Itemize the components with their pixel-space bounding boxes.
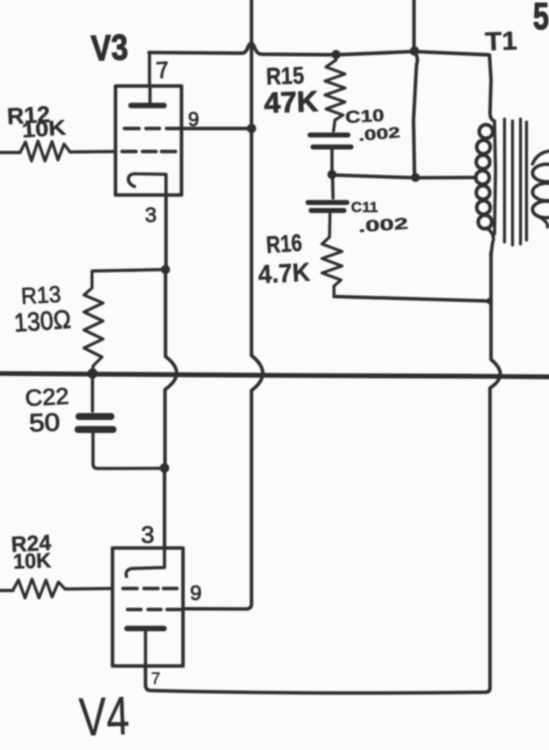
wire: C10 bottom lead <box>330 150 333 173</box>
transformer T1 core line 4 <box>525 122 528 240</box>
transformer T1 primary loop 4 <box>476 171 490 185</box>
transformer T1 secondary loop 3 <box>533 201 549 218</box>
svg-text:5: 5 <box>533 0 549 38</box>
transformer T1 secondary lead-in <box>533 151 549 164</box>
wire: C11 top lead <box>331 175 335 198</box>
tube V4 cathode <box>126 547 164 577</box>
svg-text:.002: .002 <box>358 124 401 145</box>
transformer T1 primary loop 1 <box>479 125 493 139</box>
wire: B+ vertical to center tap line <box>414 52 418 175</box>
wire: B+ vertical from top <box>412 0 416 49</box>
wire: bus to C22 <box>91 374 94 412</box>
wire: C22 bottom to cathode chain <box>93 433 163 469</box>
svg-text:50: 50 <box>29 408 61 437</box>
svg-text:47K: 47K <box>264 86 319 120</box>
capacitor C11 plate 2 <box>311 208 344 213</box>
transformer T1 core line 3 <box>519 119 522 244</box>
wire: V3 cathode to pin 3 <box>164 175 167 196</box>
wire: input stub to R24 <box>0 589 13 592</box>
transformer T1 primary loop 3 <box>476 155 490 169</box>
wire: R16 bottom to T1 primary bottom <box>334 297 488 302</box>
transformer T1 primary loop 7 <box>478 215 492 229</box>
svg-text:9: 9 <box>190 582 202 605</box>
junction dot C10/C11 <box>327 170 336 179</box>
transformer T1 primary loop 6 <box>477 201 491 215</box>
wire: V3 pin 9 to node-A vertical <box>184 127 250 130</box>
svg-text:7: 7 <box>151 669 160 688</box>
svg-text:C22: C22 <box>24 383 69 411</box>
resistor R16 <box>322 213 342 296</box>
junction dot R15 top <box>331 50 340 59</box>
resistor R12 <box>20 141 70 161</box>
wire: V3 cathode chain vertical <box>164 195 168 268</box>
tube V4 grid pin 9 (dashed) <box>128 608 181 611</box>
junction dot B+ / center tap <box>411 173 420 182</box>
wire: node A vertical (top edge to V4 pin 9, hops over cathode bus) <box>186 0 263 609</box>
capacitor C22 plate 1 <box>79 413 111 420</box>
transformer T1 secondary lead-out <box>536 215 548 228</box>
svg-text:10K: 10K <box>13 549 52 573</box>
wire: input stub to R12 <box>0 151 20 154</box>
tube V3 plate <box>148 86 151 103</box>
wire: plate bus from V3 pin 7 to T1 primary top (hops over node-A line) <box>149 43 488 55</box>
wire: R24 to V4 grid <box>65 587 111 591</box>
transformer T1 core line 2 <box>511 121 514 245</box>
svg-text:V4: V4 <box>78 686 130 748</box>
wire: R12 to V3 grid <box>70 150 114 154</box>
svg-text:4.7K: 4.7K <box>257 257 311 290</box>
transformer T1 primary loop 2 <box>477 140 491 154</box>
svg-text:3: 3 <box>145 204 157 227</box>
svg-text:R16: R16 <box>265 230 303 259</box>
resistor R15 <box>325 55 345 132</box>
svg-text:3: 3 <box>141 522 154 549</box>
resistor R13 <box>84 271 103 371</box>
wire: V3 pin 7 lead <box>148 53 151 86</box>
svg-text:10K: 10K <box>21 116 66 142</box>
svg-text:C11: C11 <box>351 199 378 216</box>
wire: cathode bus (full width) <box>0 374 549 377</box>
svg-text:130Ω: 130Ω <box>13 304 72 338</box>
svg-text:7: 7 <box>155 56 170 83</box>
capacitor C11 plate 1 <box>308 200 347 205</box>
junction dot R16 / T1 bottom <box>486 298 492 304</box>
junction dot B+ / plate bus <box>410 46 419 55</box>
tube V3 cathode <box>128 174 165 187</box>
wire: screen line C10/C11 junction to T1 center tap <box>332 175 476 178</box>
junction dot C22 bottom <box>160 463 170 473</box>
svg-text:.002: .002 <box>358 216 409 236</box>
resistor R24 <box>13 579 65 598</box>
capacitor C10 plate 1 <box>310 133 348 138</box>
junction dot V3 pin9 / node A <box>247 124 256 133</box>
wire: V4 plate to bottom run <box>146 666 487 693</box>
wire: T1 primary top lead down <box>490 55 495 121</box>
tube V4 grid (dashed, to R24) <box>123 587 177 590</box>
wire: cathode chain to V4 pin 3 <box>163 468 167 546</box>
transformer T1 secondary loop 1 <box>533 164 549 182</box>
capacitor C10 plate 2 <box>313 145 351 150</box>
transformer T1 primary winding spine <box>495 121 496 234</box>
svg-text:T1: T1 <box>485 25 518 56</box>
tube V3 control grid (dashed, to R12) <box>122 150 176 153</box>
transformer T1 core line 1 <box>503 119 506 242</box>
svg-text:V3: V3 <box>90 26 128 68</box>
wire: cathode chain hop over bus <box>165 270 177 467</box>
wire: R13 top connection <box>93 270 166 272</box>
tube V3 grid pin 9 (dashed) <box>125 127 181 130</box>
transformer T1 secondary loop 2 <box>533 183 549 201</box>
svg-text:C10: C10 <box>345 106 385 127</box>
junction dot R13 top <box>161 265 170 274</box>
transformer T1 primary bottom lead <box>487 228 493 255</box>
tube V3 envelope <box>116 86 182 195</box>
tube V4 plate <box>127 626 164 632</box>
transformer T1 primary loop 5 <box>476 186 490 200</box>
junction dot R13/C22 on bus <box>87 368 97 378</box>
wire: T1 primary bottom vertical (hops bus, down to V4 plate wire) <box>485 252 500 692</box>
capacitor C22 plate 2 <box>78 426 113 433</box>
tube V4 envelope <box>113 548 184 666</box>
